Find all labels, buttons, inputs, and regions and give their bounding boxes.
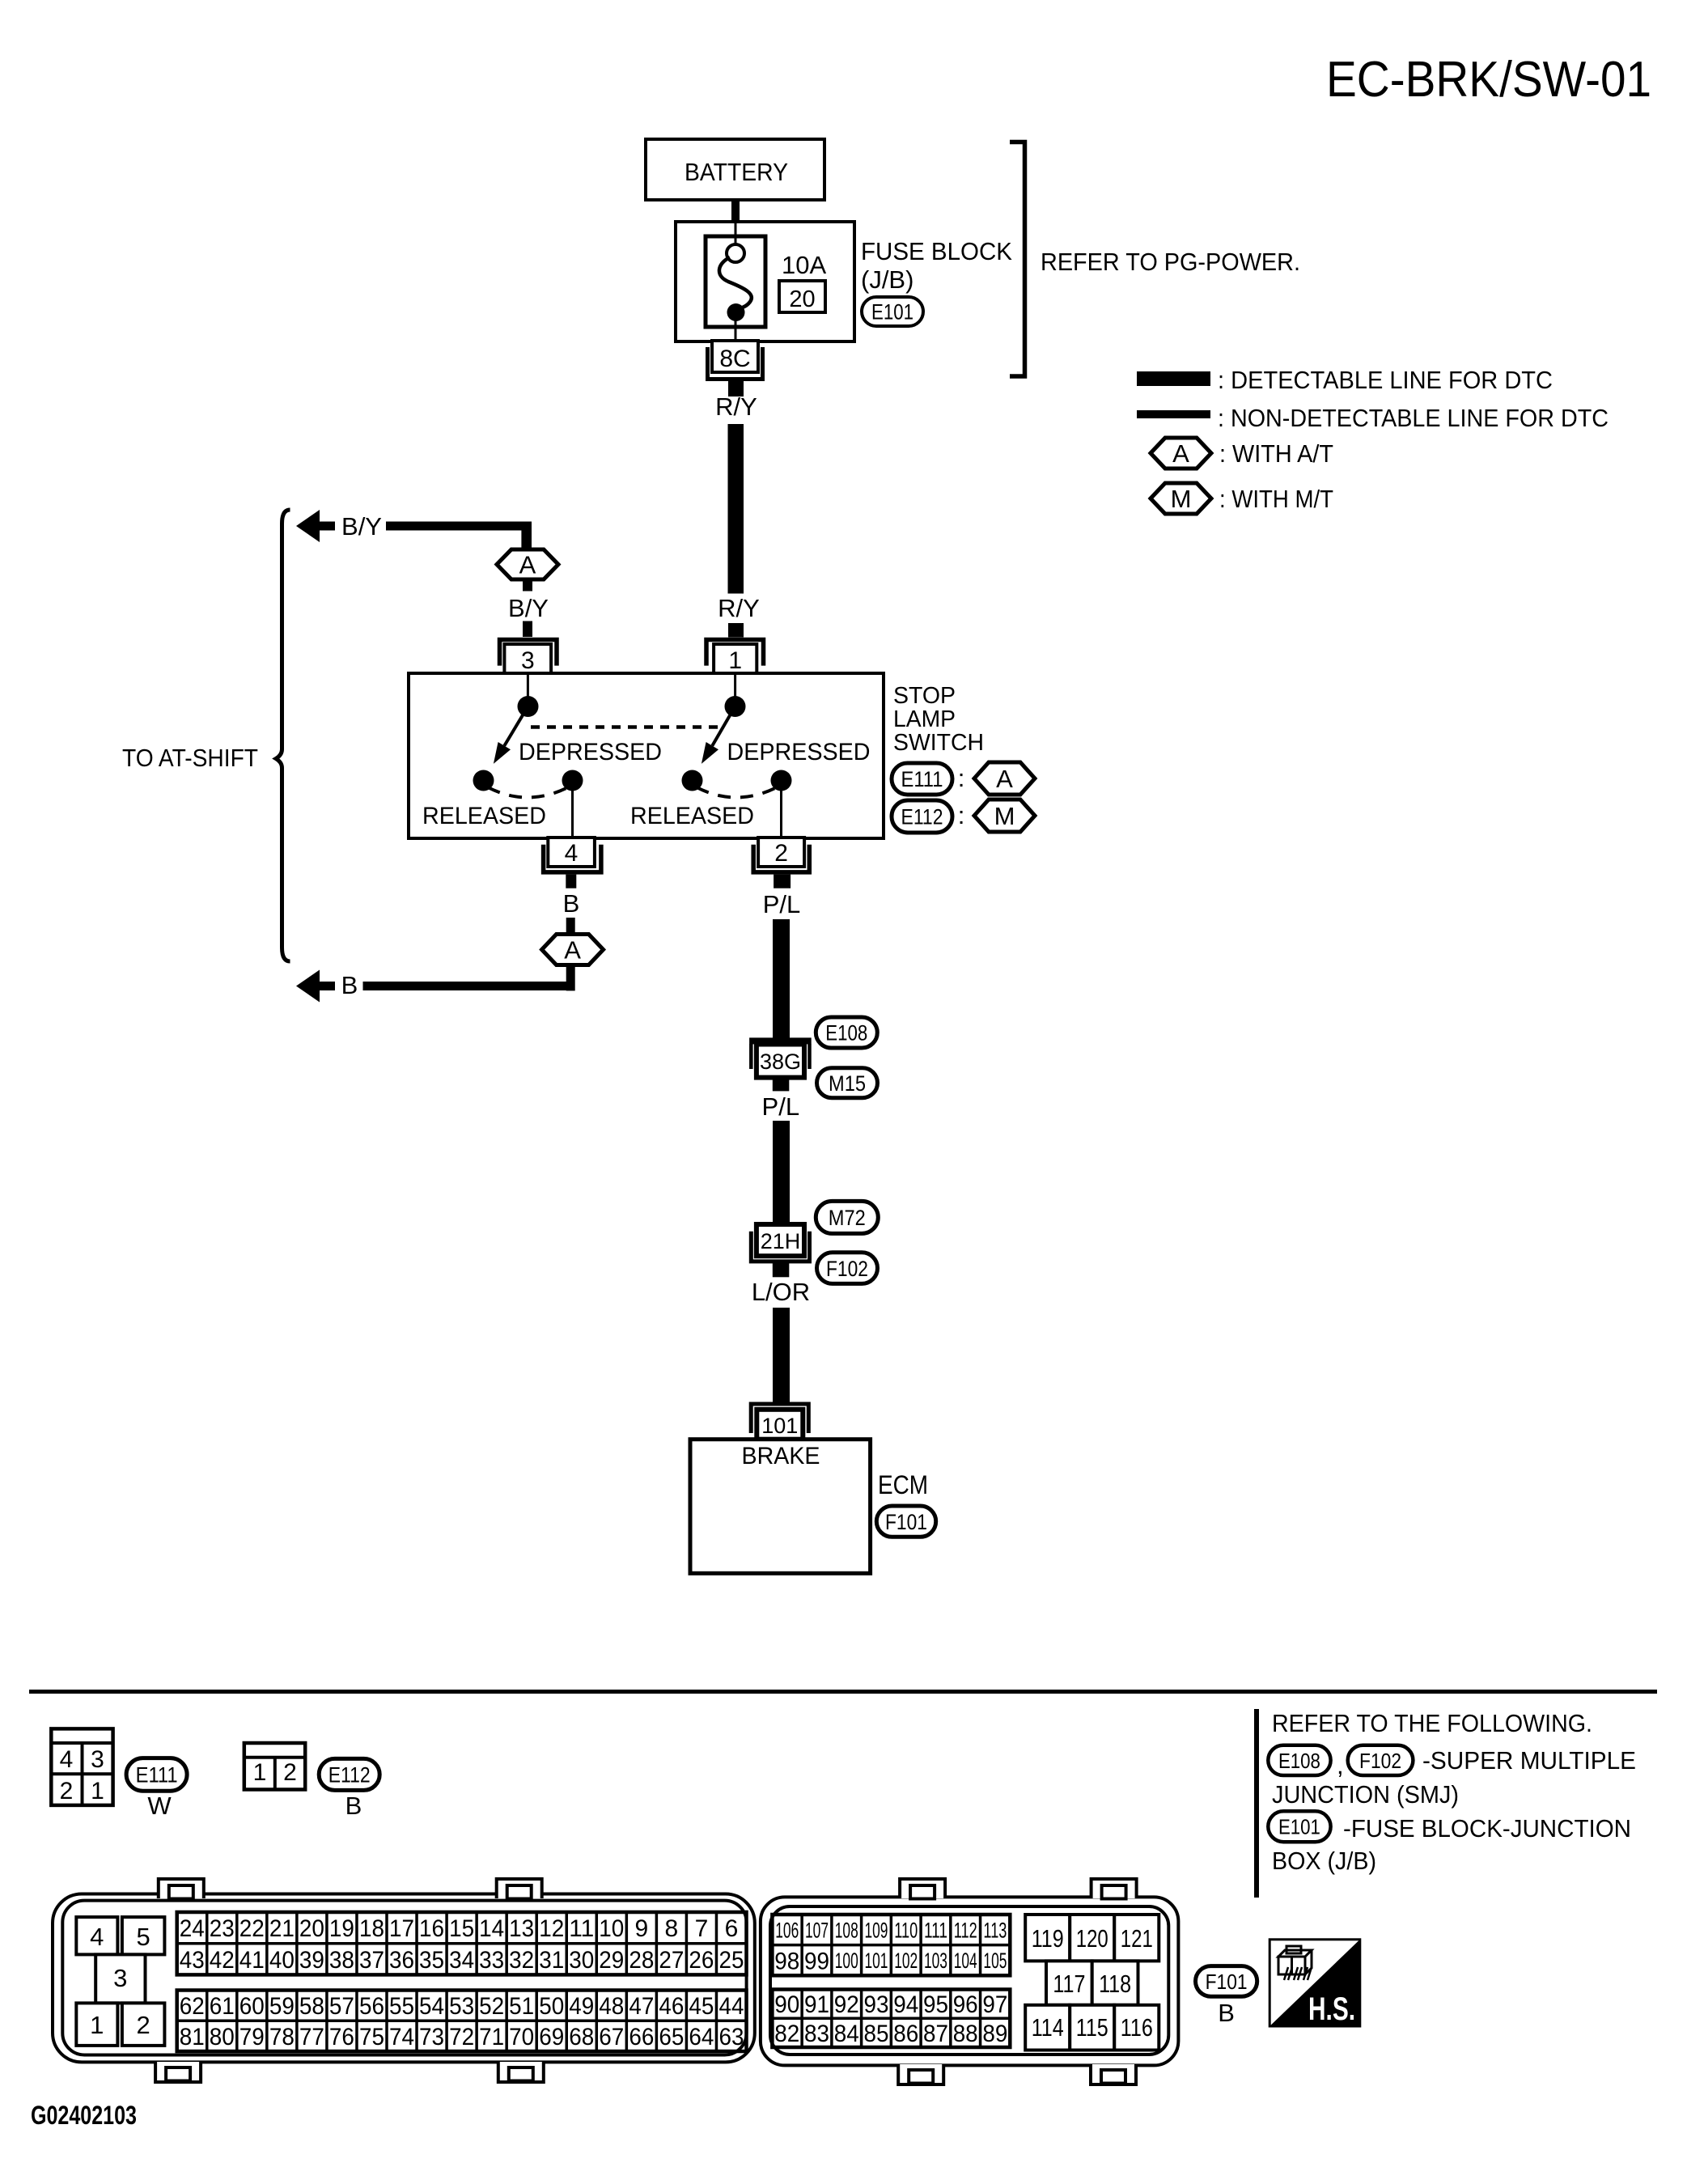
svg-text:57: 57: [329, 1993, 354, 2020]
svg-text:FUSE BLOCK: FUSE BLOCK: [861, 237, 1012, 265]
wire stub below 2: [774, 875, 791, 888]
svg-text:92: 92: [834, 1991, 859, 2018]
svg-text:74: 74: [389, 2024, 414, 2050]
left depressed contact: [562, 770, 583, 791]
left switch: pin3 lead: [527, 673, 529, 698]
svg-text:72: 72: [449, 2024, 474, 2050]
svg-text:97: 97: [982, 1991, 1007, 2018]
wire B/Y corner down: [521, 522, 532, 550]
svg-text:55: 55: [389, 1993, 414, 2020]
pin grid 106-113 / 98-105: [772, 1915, 1010, 1975]
svg-text:111: 111: [924, 1919, 947, 1943]
svg-text:101: 101: [864, 1949, 888, 1973]
fuse block (J/B) E101: [676, 222, 854, 341]
svg-text:B: B: [341, 971, 358, 999]
right released dashed arc: [697, 787, 777, 798]
svg-text:15: 15: [449, 1915, 474, 1942]
svg-text:L/OR: L/OR: [752, 1278, 810, 1306]
svg-text:40: 40: [269, 1947, 295, 1974]
wire P/L detectable: [773, 1121, 790, 1224]
svg-text:96: 96: [953, 1991, 978, 2018]
svg-text:RELEASED: RELEASED: [422, 803, 546, 829]
svg-text:LAMP: LAMP: [893, 706, 956, 732]
svg-text:22: 22: [239, 1915, 265, 1942]
svg-text:B: B: [563, 889, 580, 918]
svg-text:11: 11: [569, 1915, 594, 1942]
svg-text:ECM: ECM: [878, 1470, 928, 1499]
SMJ connector 21H: [757, 1224, 804, 1256]
svg-text:65: 65: [659, 2024, 684, 2050]
svg-text:26: 26: [689, 1947, 714, 1974]
svg-text:17: 17: [389, 1915, 414, 1942]
cells 114 115 116: [1025, 2005, 1070, 2050]
separator line: [29, 1690, 1657, 1694]
svg-text:STOP: STOP: [893, 683, 956, 709]
svg-text:EC-BRK/SW-01: EC-BRK/SW-01: [1326, 52, 1651, 108]
svg-text:53: 53: [449, 1993, 474, 2020]
connector 2: [758, 838, 804, 867]
svg-text:108: 108: [835, 1919, 858, 1943]
svg-text:DEPRESSED: DEPRESSED: [519, 739, 662, 765]
svg-text:50: 50: [539, 1993, 564, 2020]
svg-text:SWITCH: SWITCH: [893, 730, 984, 756]
wire stub: [523, 621, 532, 638]
svg-text:45: 45: [689, 1993, 714, 2020]
connector id E101 oval: [862, 297, 923, 326]
stop lamp switch box: [409, 673, 884, 838]
svg-text::: :: [958, 801, 965, 829]
svg-text:48: 48: [599, 1993, 624, 2020]
svg-text:95: 95: [923, 1991, 948, 2018]
SMJ connector 38G: [749, 1037, 812, 1044]
svg-text:88: 88: [953, 2021, 978, 2047]
svg-text:99: 99: [804, 1948, 829, 1974]
svg-text:B/Y: B/Y: [341, 512, 382, 541]
svg-text:110: 110: [894, 1919, 918, 1943]
svg-text:38G: 38G: [760, 1050, 801, 1074]
wire battery to fuse block: [731, 198, 740, 223]
svg-text:107: 107: [805, 1919, 829, 1943]
svg-text:B/Y: B/Y: [508, 594, 549, 622]
svg-text:21H: 21H: [761, 1229, 801, 1253]
fuse number 20 box: [779, 281, 825, 312]
svg-text:93: 93: [863, 1991, 888, 2018]
connector tab: [497, 1879, 542, 1898]
svg-text:31: 31: [539, 1947, 564, 1974]
svg-text:R/Y: R/Y: [715, 392, 757, 421]
svg-text:51: 51: [509, 1993, 534, 2020]
svg-text:44: 44: [718, 1993, 744, 2020]
svg-text:12: 12: [539, 1915, 564, 1942]
connector face E112: [244, 1743, 305, 1790]
battery B1: [646, 139, 824, 200]
svg-text:32: 32: [509, 1947, 534, 1974]
svg-text:B: B: [345, 1792, 362, 1820]
legend hexagon M with M/T: [1151, 483, 1211, 514]
connector 8C: [712, 341, 758, 372]
svg-text:23: 23: [210, 1915, 235, 1942]
svg-text:F101: F101: [1206, 1970, 1248, 1994]
cells 117 118: [1046, 1961, 1092, 2004]
connector id E112 oval: [319, 1758, 379, 1790]
svg-text:RELEASED: RELEASED: [630, 803, 754, 829]
svg-text:103: 103: [924, 1949, 947, 1973]
svg-text:119: 119: [1032, 1924, 1064, 1953]
svg-text:84: 84: [834, 2021, 859, 2047]
wire B horizontal to arrow: [363, 982, 575, 990]
connector tab: [1091, 2064, 1136, 2084]
connector tab: [498, 2062, 544, 2082]
connector id E108 oval: [816, 1017, 877, 1048]
connector tab: [155, 2062, 201, 2082]
svg-text:W: W: [147, 1792, 172, 1820]
svg-text:: WITH A/T: : WITH A/T: [1219, 439, 1333, 468]
connector id E112 oval: [892, 800, 952, 833]
svg-text:1: 1: [253, 1759, 267, 1786]
wire stub: [523, 579, 532, 592]
svg-text:F102: F102: [826, 1257, 868, 1281]
svg-text:4: 4: [90, 1923, 104, 1951]
svg-text:42: 42: [210, 1947, 235, 1974]
left switch common contact: [518, 696, 539, 717]
svg-text:M: M: [1171, 485, 1192, 513]
svg-text:7: 7: [695, 1915, 709, 1942]
key cells 4 5 3 1 2: [76, 1917, 117, 1954]
svg-text:73: 73: [419, 2024, 444, 2050]
svg-text:33: 33: [479, 1947, 504, 1974]
wire stub below 21H: [773, 1263, 790, 1277]
svg-text:M72: M72: [829, 1206, 866, 1230]
connector id F102 oval: [817, 1253, 878, 1284]
svg-text:REFER TO PG-POWER.: REFER TO PG-POWER.: [1041, 248, 1300, 276]
svg-text:68: 68: [569, 2024, 594, 2050]
svg-text:25: 25: [718, 1947, 744, 1974]
connector tab: [1091, 1879, 1137, 1898]
svg-text:30: 30: [569, 1947, 594, 1974]
svg-text:81: 81: [180, 2024, 205, 2050]
svg-text:3: 3: [521, 647, 535, 674]
svg-text:86: 86: [893, 2021, 918, 2047]
connector tab: [159, 1879, 204, 1898]
svg-text:112: 112: [954, 1919, 977, 1943]
svg-text:118: 118: [1099, 1970, 1131, 1998]
svg-text:116: 116: [1121, 2013, 1153, 2042]
wire B/Y horizontal: [386, 522, 532, 531]
svg-text:120: 120: [1076, 1924, 1108, 1953]
hexagon A: [974, 762, 1035, 795]
svg-text:1: 1: [91, 1778, 104, 1804]
svg-text:94: 94: [893, 1991, 918, 2018]
svg-text:85: 85: [863, 2021, 888, 2047]
connector id M15 oval: [817, 1068, 878, 1098]
svg-text:114: 114: [1032, 2013, 1064, 2042]
refer-to side bar: [1254, 1709, 1259, 1898]
bracket refer to PG-POWER: [1010, 142, 1025, 377]
svg-text:16: 16: [419, 1915, 444, 1942]
left depressed lead to pin4: [571, 789, 574, 838]
svg-text:83: 83: [804, 2021, 829, 2047]
wire stub below 8C: [728, 381, 744, 397]
svg-text:100: 100: [835, 1949, 858, 1973]
svg-text:67: 67: [599, 2024, 624, 2050]
wire stub above connector 1: [728, 623, 744, 638]
svg-text:71: 71: [479, 2024, 504, 2050]
svg-text:61: 61: [210, 1993, 235, 2020]
svg-text:27: 27: [659, 1947, 684, 1974]
left released contact: [473, 770, 494, 791]
svg-text:2: 2: [774, 840, 788, 867]
svg-text:3: 3: [113, 1964, 127, 1992]
svg-text:90: 90: [774, 1991, 799, 2018]
svg-text:: WITH M/T: : WITH M/T: [1219, 485, 1333, 513]
svg-text:46: 46: [659, 1993, 684, 2020]
svg-text:M15: M15: [829, 1071, 866, 1096]
svg-text:105: 105: [983, 1949, 1007, 1973]
svg-text:E101: E101: [871, 300, 913, 324]
svg-text:79: 79: [239, 2024, 265, 2050]
svg-text:A: A: [519, 551, 536, 579]
svg-text:E111: E111: [136, 1763, 178, 1787]
connector id F102 oval: [1348, 1745, 1414, 1775]
svg-text:87: 87: [923, 2021, 948, 2047]
connector tab: [900, 1879, 945, 1898]
ECM box: [690, 1440, 871, 1574]
svg-text:E108: E108: [1278, 1749, 1320, 1773]
svg-text:E111: E111: [901, 767, 943, 791]
svg-text:E108: E108: [825, 1021, 867, 1045]
svg-text:117: 117: [1053, 1970, 1085, 1998]
svg-text:9: 9: [635, 1915, 649, 1942]
svg-text:E101: E101: [1278, 1815, 1320, 1839]
svg-text:35: 35: [419, 1947, 444, 1974]
connector id F101 oval: [1196, 1966, 1257, 1997]
H.S. view logo: [1269, 1940, 1360, 2026]
hexagon A (with A/T) top: [497, 549, 558, 579]
svg-text:70: 70: [509, 2024, 534, 2050]
svg-text:49: 49: [569, 1993, 594, 2020]
cells 119 120 121: [1025, 1915, 1070, 1961]
svg-text:BOX (J/B): BOX (J/B): [1272, 1847, 1376, 1875]
svg-text:18: 18: [359, 1915, 384, 1942]
svg-text:19: 19: [329, 1915, 354, 1942]
svg-text:37: 37: [359, 1947, 384, 1974]
svg-text:58: 58: [299, 1993, 324, 2020]
right switch: pin1 lead: [734, 673, 736, 698]
svg-text:2: 2: [283, 1759, 297, 1786]
pin grid 24-6 / 43-25: [177, 1912, 747, 1974]
connector 3: [500, 640, 557, 666]
svg-text:10A: 10A: [782, 251, 826, 279]
svg-text:63: 63: [718, 2024, 744, 2050]
svg-text:4: 4: [60, 1746, 74, 1773]
svg-text:,: ,: [1337, 1751, 1344, 1779]
wire stub below hexagon: [566, 965, 575, 990]
svg-text:20: 20: [299, 1915, 324, 1942]
connector id F101 oval: [876, 1506, 935, 1537]
svg-text:TO AT-SHIFT: TO AT-SHIFT: [122, 744, 258, 772]
connector tab: [898, 2064, 943, 2084]
connector id E108 oval: [1268, 1745, 1330, 1775]
svg-text:121: 121: [1121, 1924, 1153, 1953]
svg-text:39: 39: [299, 1947, 324, 1974]
svg-text:BATTERY: BATTERY: [685, 158, 788, 186]
brace for AT-SHIFT: [276, 510, 290, 961]
svg-text:1: 1: [728, 647, 742, 674]
svg-text:2: 2: [136, 2011, 150, 2039]
mechanical link dashed line: [531, 725, 723, 729]
svg-text:13: 13: [509, 1915, 534, 1942]
svg-text:-FUSE BLOCK-JUNCTION: -FUSE BLOCK-JUNCTION: [1343, 1814, 1631, 1843]
connector 1: [706, 640, 764, 666]
svg-text:113: 113: [983, 1919, 1007, 1943]
legend hexagon A with A/T: [1151, 438, 1211, 469]
svg-text:20: 20: [789, 286, 815, 312]
right released contact: [682, 770, 703, 791]
svg-text:3: 3: [91, 1746, 104, 1773]
svg-text:P/L: P/L: [762, 1092, 800, 1121]
svg-text:E112: E112: [901, 805, 943, 829]
arrow to AT-SHIFT (B/Y): [296, 510, 320, 542]
right depressed lead to pin2: [780, 789, 782, 838]
svg-text:8: 8: [665, 1915, 679, 1942]
svg-text:52: 52: [479, 1993, 504, 2020]
svg-text:41: 41: [239, 1947, 265, 1974]
svg-text:5: 5: [136, 1923, 150, 1951]
svg-text:82: 82: [774, 2021, 799, 2047]
right depressed contact: [771, 770, 792, 791]
svg-text:R/Y: R/Y: [718, 594, 760, 622]
left released dashed arc: [488, 787, 568, 798]
wire stub below 4: [566, 875, 576, 888]
svg-text:102: 102: [894, 1949, 918, 1973]
legend detectable line: [1137, 371, 1210, 386]
svg-text:10: 10: [599, 1915, 624, 1942]
svg-text:80: 80: [210, 2024, 235, 2050]
svg-text:28: 28: [629, 1947, 654, 1974]
svg-text:62: 62: [180, 1993, 205, 2020]
svg-text:B: B: [1218, 1999, 1235, 2027]
svg-text:14: 14: [479, 1915, 504, 1942]
svg-text:2: 2: [60, 1778, 74, 1804]
svg-text:REFER TO THE FOLLOWING.: REFER TO THE FOLLOWING.: [1272, 1709, 1592, 1737]
svg-text:56: 56: [359, 1993, 384, 2020]
connector id E101 oval: [1268, 1811, 1330, 1842]
svg-text:DEPRESSED: DEPRESSED: [727, 739, 871, 765]
svg-text:66: 66: [629, 2024, 654, 2050]
wire stub: [566, 918, 575, 935]
svg-text:JUNCTION (SMJ): JUNCTION (SMJ): [1272, 1780, 1459, 1809]
wire R/Y detectable: [728, 424, 744, 594]
hexagon M: [974, 799, 1035, 832]
pin grid 62-44 / 81-63: [177, 1991, 747, 2052]
svg-text:59: 59: [269, 1993, 295, 2020]
svg-text::: :: [958, 764, 965, 792]
svg-text:47: 47: [629, 1993, 654, 2020]
wire P/L detectable: [773, 919, 790, 1039]
connector face E111: [51, 1728, 112, 1805]
svg-text:1: 1: [90, 2011, 104, 2039]
ECM harness connector right shell: [761, 1897, 1179, 2065]
svg-text:91: 91: [804, 1991, 829, 2018]
svg-text:106: 106: [775, 1919, 799, 1943]
connector id E111 oval: [892, 763, 952, 795]
svg-text:43: 43: [180, 1947, 205, 1974]
svg-text:P/L: P/L: [763, 890, 801, 918]
svg-text:76: 76: [329, 2024, 354, 2050]
svg-text:29: 29: [599, 1947, 624, 1974]
svg-text:38: 38: [329, 1947, 354, 1974]
svg-text:36: 36: [389, 1947, 414, 1974]
svg-text:-SUPER MULTIPLE: -SUPER MULTIPLE: [1422, 1746, 1636, 1775]
connector pictogram: [1278, 1946, 1312, 1980]
svg-text:A: A: [996, 765, 1013, 793]
svg-text:E112: E112: [328, 1763, 371, 1787]
connector id M72 oval: [816, 1201, 878, 1233]
legend non-detectable line: [1137, 410, 1210, 418]
svg-text:BRAKE: BRAKE: [742, 1443, 820, 1469]
svg-text:M: M: [994, 802, 1015, 830]
svg-text:F102: F102: [1359, 1749, 1401, 1773]
svg-text:A: A: [1172, 439, 1189, 468]
fuse F 10A symbol: [706, 236, 765, 327]
svg-text:78: 78: [269, 2024, 295, 2050]
ECM connector 101: [751, 1404, 808, 1433]
svg-text:24: 24: [180, 1915, 205, 1942]
wire stub below 38G: [773, 1078, 790, 1092]
svg-text:89: 89: [982, 2021, 1007, 2047]
svg-text:: NON-DETECTABLE LINE FOR DTC: : NON-DETECTABLE LINE FOR DTC: [1218, 404, 1609, 432]
svg-text:G02402103: G02402103: [31, 2101, 137, 2130]
svg-text:4: 4: [565, 840, 579, 867]
svg-text:8C: 8C: [719, 346, 750, 372]
left switch arm with arrow: [504, 706, 528, 746]
svg-text:21: 21: [269, 1915, 295, 1942]
svg-text:104: 104: [954, 1949, 977, 1973]
svg-text:98: 98: [774, 1948, 799, 1974]
svg-text:101: 101: [761, 1414, 798, 1438]
svg-text:109: 109: [864, 1919, 888, 1943]
svg-text:54: 54: [419, 1993, 444, 2020]
connector 4: [548, 838, 595, 867]
svg-text:115: 115: [1076, 2013, 1108, 2042]
svg-text:6: 6: [725, 1915, 739, 1942]
svg-text:(J/B): (J/B): [861, 265, 913, 294]
svg-text:64: 64: [689, 2024, 714, 2050]
svg-text:75: 75: [359, 2024, 384, 2050]
svg-text:H.S.: H.S.: [1308, 1991, 1355, 2027]
svg-text:34: 34: [449, 1947, 474, 1974]
svg-text:69: 69: [539, 2024, 564, 2050]
ECM harness connector left shell: [53, 1894, 755, 2063]
svg-text:A: A: [564, 936, 581, 965]
svg-text:: DETECTABLE LINE FOR DTC: : DETECTABLE LINE FOR DTC: [1218, 366, 1553, 394]
pin grid 90-97 / 82-89: [772, 1990, 1010, 2048]
right switch arm with arrow: [712, 706, 735, 746]
hexagon A (with A/T) lower: [542, 935, 604, 965]
wire L/OR detectable: [773, 1308, 790, 1402]
arrow to AT-SHIFT (B): [296, 970, 320, 1003]
svg-text:F101: F101: [885, 1510, 927, 1534]
svg-text:60: 60: [239, 1993, 265, 2020]
connector id E111 oval: [126, 1758, 187, 1792]
svg-text:77: 77: [299, 2024, 324, 2050]
right switch common contact: [725, 696, 746, 717]
